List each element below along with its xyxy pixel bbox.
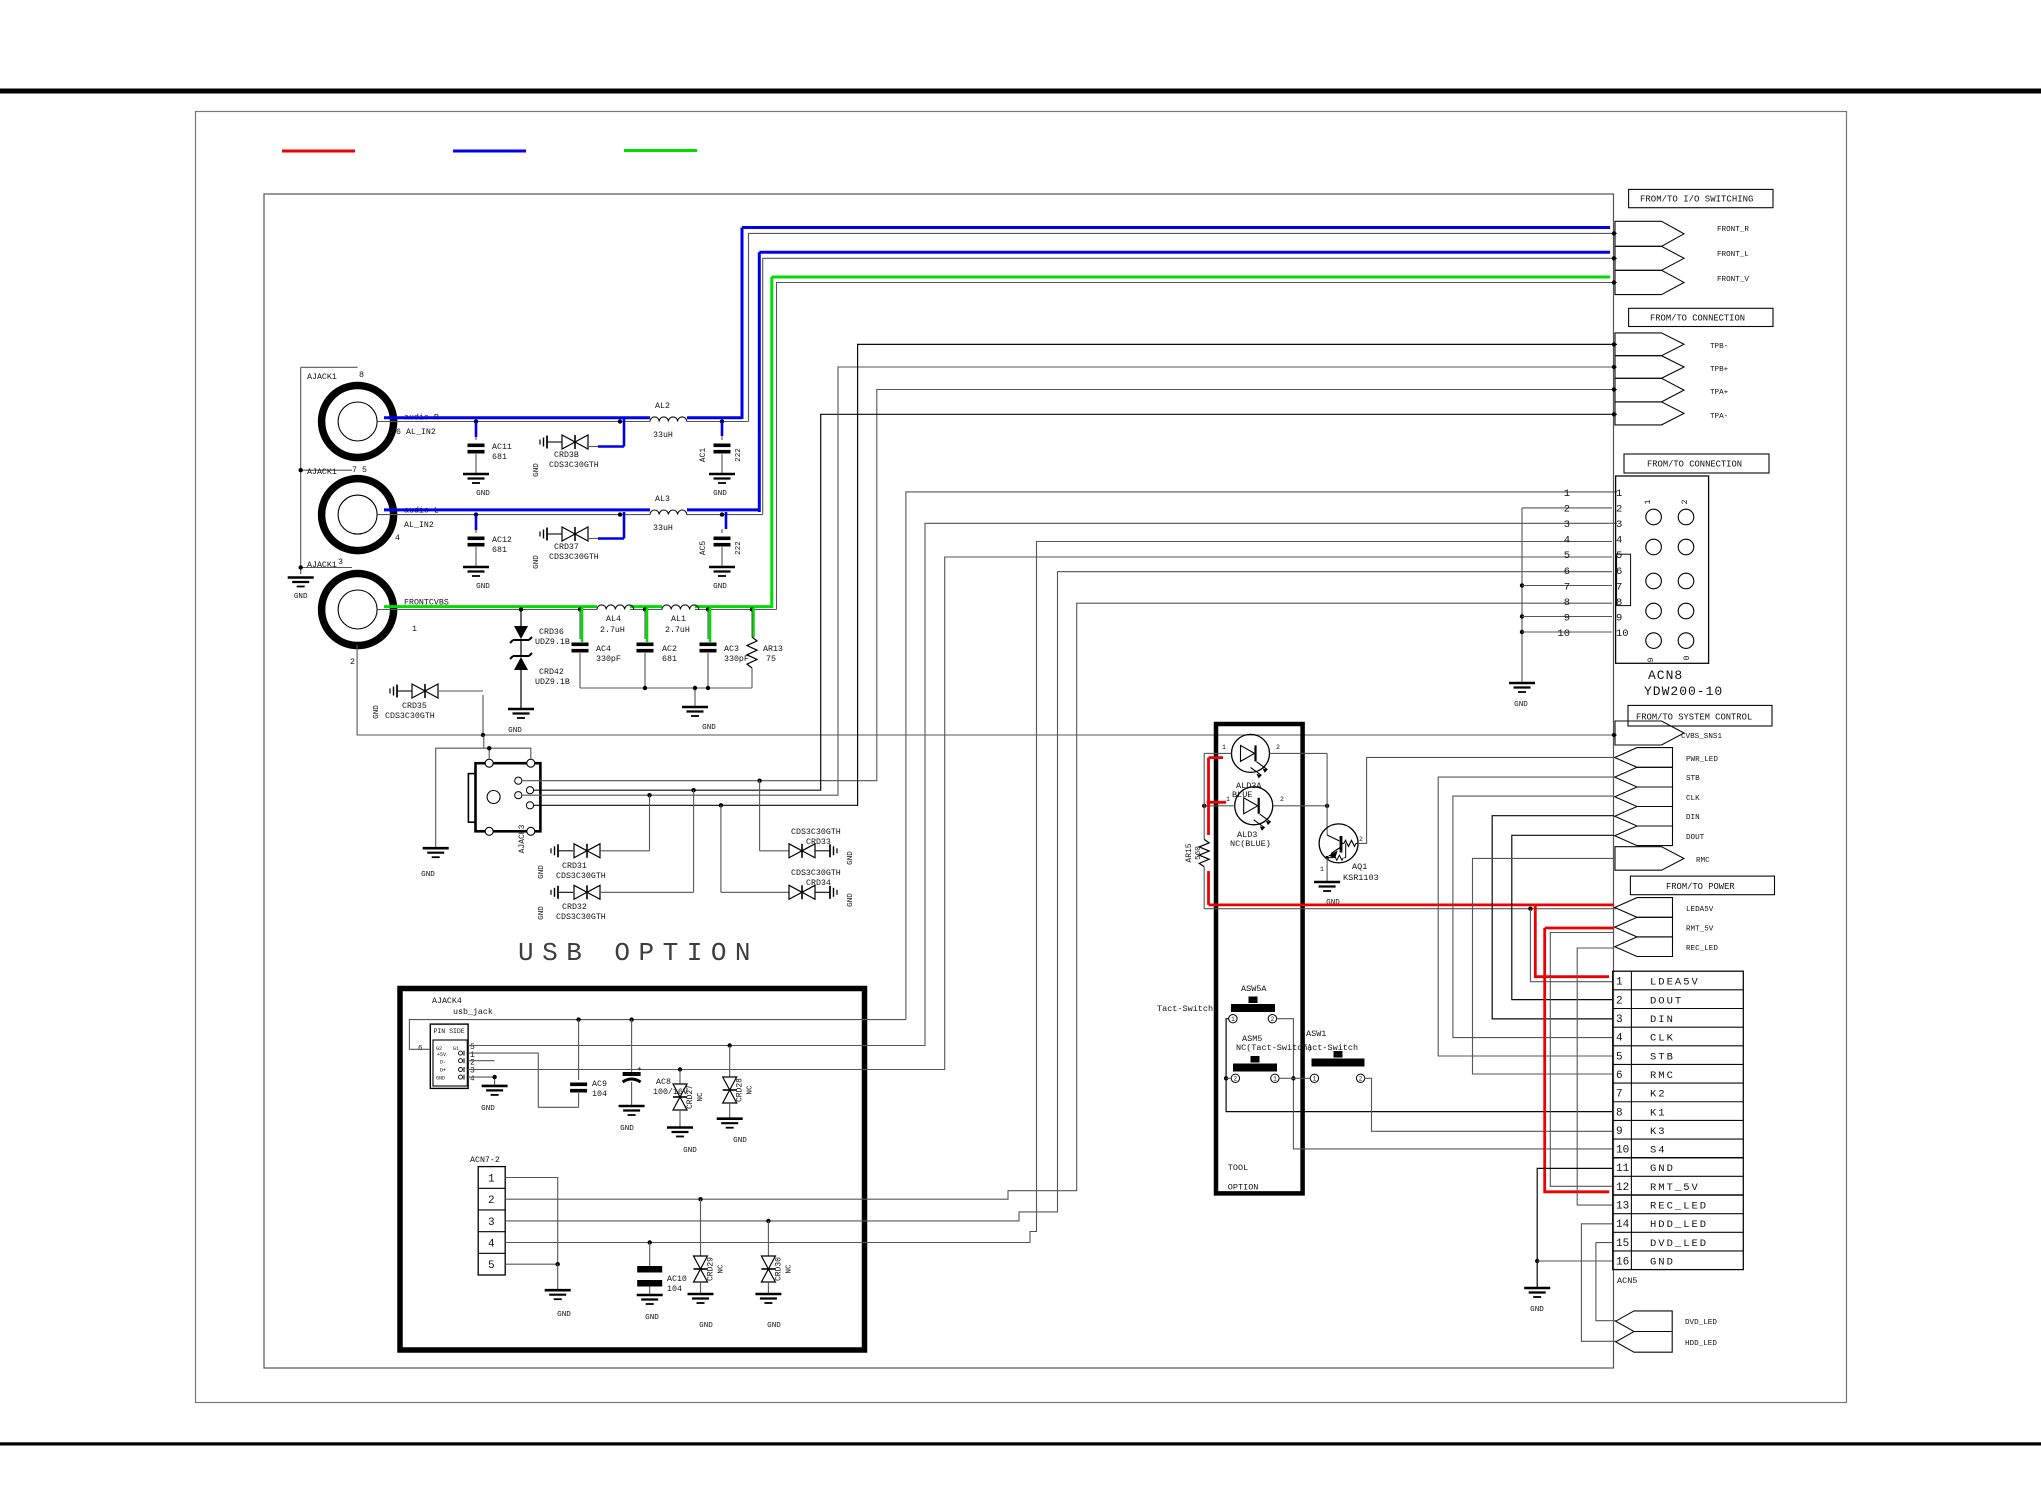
svg-text:RMT_5V: RMT_5V — [1686, 926, 1714, 934]
svg-text:3: 3 — [1616, 1014, 1623, 1026]
svg-text:TPB-: TPB- — [1710, 343, 1728, 351]
svg-text:FRONT_R: FRONT_R — [1717, 226, 1749, 234]
svg-text:104: 104 — [667, 1285, 682, 1294]
svg-text:7: 7 — [1616, 1089, 1623, 1101]
svg-text:GND: GND — [421, 871, 435, 879]
svg-text:TPA-: TPA- — [1710, 413, 1728, 421]
ground filter GND — [694, 688, 696, 707]
svg-text:9: 9 — [1616, 1126, 1623, 1138]
svg-text:8: 8 — [359, 371, 364, 380]
svg-text:9: 9 — [1616, 612, 1622, 624]
svg-text:D+: D+ — [440, 1068, 446, 1074]
svg-text:DOUT: DOUT — [1686, 834, 1705, 842]
svg-text:CRD33: CRD33 — [806, 838, 831, 847]
wire AJACK3 top bracket — [436, 748, 531, 848]
inductor AL4 — [597, 605, 634, 610]
svg-text:GND: GND — [1650, 1163, 1675, 1175]
diode CRD29 (TVS vertical) — [700, 1199, 702, 1256]
svg-text:AJACK3: AJACK3 — [518, 824, 527, 853]
svg-text:REC_LED: REC_LED — [1686, 945, 1718, 953]
wire ALD3 anode — [1204, 805, 1235, 807]
wire LEDA5V gray rail — [1204, 908, 1616, 910]
svg-text:DIN: DIN — [1650, 1014, 1675, 1026]
wire usb D+ row to ACN8 pin5 — [468, 557, 1612, 1070]
diode CRD31 (TVS) — [557, 844, 559, 857]
wire pin11 GND to ground — [1537, 1168, 1612, 1288]
wire blue overlay audio-R — [384, 416, 650, 419]
ground CRD42 GND — [508, 708, 534, 711]
svg-text:FRONT_L: FRONT_L — [1717, 251, 1749, 259]
svg-text:CDS3C30GTH: CDS3C30GTH — [549, 553, 599, 562]
wire usb +5V loop to AC9 bottom — [468, 1053, 578, 1107]
resistor AR13 75 — [750, 607, 754, 611]
svg-text:UDZ9.1B: UDZ9.1B — [535, 638, 570, 647]
svg-text:ASW1: ASW1 — [1306, 1029, 1326, 1039]
box FROM/TO CONNECTION lower — [1624, 454, 1769, 473]
svg-text:AC8: AC8 — [656, 1078, 671, 1087]
svg-text:YDW200-10: YDW200-10 — [1644, 684, 1723, 699]
svg-text:NC: NC — [786, 1264, 794, 1274]
wire ASW5A pin1 to K1 row — [1226, 1019, 1612, 1112]
svg-text:7: 7 — [1564, 581, 1570, 593]
connector ACN5 16-pin table — [1613, 971, 1744, 1269]
svg-text:10: 10 — [1557, 628, 1570, 640]
wire LEDA5V red to pin1 — [1535, 905, 1609, 977]
svg-text:GND: GND — [847, 851, 855, 865]
svg-text:3: 3 — [1616, 519, 1622, 531]
svg-text:33uH: 33uH — [653, 431, 673, 440]
svg-text:330pF: 330pF — [596, 655, 621, 664]
svg-text:+: + — [637, 1066, 642, 1074]
diode CRD34 (TVS) — [720, 805, 722, 892]
svg-text:RMT_5V: RMT_5V — [1650, 1182, 1700, 1194]
svg-text:G1: G1 — [453, 1046, 459, 1052]
wire red anode riser — [1207, 758, 1210, 835]
capacitor AC5 222 — [720, 512, 724, 516]
svg-text:1: 1 — [1616, 488, 1622, 500]
svg-text:0: 0 — [1683, 655, 1692, 660]
tag DOUT — [1615, 826, 1673, 846]
svg-text:1: 1 — [1564, 488, 1570, 500]
svg-text:6 AL_IN2: 6 AL_IN2 — [396, 428, 436, 437]
svg-text:2: 2 — [1234, 1076, 1238, 1083]
svg-text:AC5: AC5 — [699, 541, 708, 556]
tag REC_LED — [1615, 937, 1673, 957]
svg-text:10: 10 — [1616, 628, 1629, 640]
connector AJACK4 usb jack body — [430, 1024, 468, 1088]
box ACN8 rows 6-8 highlight — [1617, 554, 1631, 605]
capacitor AC3 330pF — [706, 607, 710, 611]
svg-text:GND: GND — [1530, 1306, 1544, 1314]
svg-text:FROM/TO CONNECTION: FROM/TO CONNECTION — [1647, 460, 1742, 470]
capacitor AC4 330pF — [578, 607, 582, 611]
svg-text:KSR1103: KSR1103 — [1343, 873, 1379, 883]
svg-text:GND: GND — [476, 583, 490, 591]
tag TPB+ — [1615, 356, 1684, 379]
svg-text:FROM/TO I/O SWITCHING: FROM/TO I/O SWITCHING — [1640, 195, 1753, 205]
ground AC5 GND — [709, 566, 735, 569]
connector ACN8 box — [1616, 476, 1709, 663]
svg-text:2: 2 — [488, 1195, 495, 1207]
svg-text:HDD_LED: HDD_LED — [1650, 1219, 1708, 1231]
capacitor AC10 104 — [649, 1243, 651, 1267]
svg-text:UDZ9.1B: UDZ9.1B — [535, 678, 570, 687]
wire ALD3A anode — [1204, 752, 1231, 754]
tag STB — [1615, 767, 1673, 787]
resistor AR15 560 — [1199, 839, 1209, 866]
wire usb GND pin to ground — [468, 1077, 495, 1086]
svg-text:DIN: DIN — [1686, 814, 1700, 822]
svg-text:2: 2 — [1359, 836, 1363, 843]
svg-text:3: 3 — [488, 1217, 495, 1229]
svg-text:AC4: AC4 — [596, 645, 611, 654]
svg-text:TPB+: TPB+ — [1710, 366, 1729, 374]
svg-text:AQ1: AQ1 — [1352, 862, 1367, 872]
wire red riser below AR15 — [1207, 871, 1210, 905]
svg-text:CDS3C30GTH: CDS3C30GTH — [791, 828, 841, 837]
svg-text:CDS3C30GTH: CDS3C30GTH — [549, 461, 599, 470]
svg-text:GND: GND — [294, 593, 308, 601]
tag TPA+ — [1615, 378, 1684, 402]
svg-text:3: 3 — [338, 558, 343, 567]
svg-text:16: 16 — [1616, 1256, 1629, 1268]
wire CLK tag to pin4 — [1453, 796, 1614, 1038]
diode CRD33 (TVS) — [759, 781, 761, 851]
svg-text:2: 2 — [1681, 499, 1690, 504]
svg-text:9: 9 — [1647, 657, 1656, 662]
tag TPA- — [1615, 402, 1684, 425]
wire pin16 GND — [1537, 1260, 1612, 1262]
diode CRD28 (TVS vertical) — [729, 1046, 731, 1078]
box FROM/TO CONNECTION upper — [1629, 308, 1773, 326]
wire AQ1 collector to PWR_LED — [1358, 757, 1614, 843]
svg-text:1: 1 — [1222, 744, 1226, 751]
transistor AQ1 KSR1103 — [1319, 824, 1358, 863]
top title bar — [0, 89, 2041, 94]
diode CRD32 (TVS) — [557, 886, 559, 899]
svg-text:GND: GND — [1514, 701, 1528, 709]
wire ACN7 pin3 to ACN8 pin6 — [505, 572, 1612, 1221]
svg-text:GND: GND — [733, 1137, 747, 1145]
ground AJACK3 GND — [423, 847, 449, 850]
tag CVBS_SNS1 — [1615, 721, 1684, 745]
connector AJACK3 body — [476, 763, 541, 831]
tag HDD_LED — [1616, 1332, 1673, 1353]
ground usb jack GND — [482, 1085, 508, 1088]
svg-text:CRD36: CRD36 — [539, 628, 564, 637]
svg-text:AC11: AC11 — [492, 443, 512, 452]
svg-text:5: 5 — [1616, 1051, 1623, 1063]
wire audio-R to tag FRONT_R — [749, 233, 1618, 421]
wire CRD35 riser to shield rail — [482, 695, 484, 735]
wire FRONTCVBS to tag FRONT_V — [777, 283, 1618, 610]
svg-text:GND: GND — [645, 1314, 659, 1322]
svg-text:11: 11 — [1616, 1163, 1630, 1175]
svg-text:2: 2 — [1564, 504, 1570, 516]
svg-text:2.7uH: 2.7uH — [600, 626, 625, 635]
svg-text:AL3: AL3 — [655, 495, 670, 504]
ground CRD29 GND — [688, 1293, 714, 1296]
ground AC11 GND — [463, 473, 489, 476]
svg-text:D-: D- — [440, 1060, 446, 1066]
wire ASM5 pins — [1226, 1077, 1231, 1079]
svg-text:1: 1 — [1644, 499, 1653, 504]
svg-text:AL1: AL1 — [671, 615, 686, 624]
svg-text:CRD32: CRD32 — [562, 903, 587, 912]
jack bracket / shield wire — [301, 366, 358, 368]
svg-text:AC9: AC9 — [592, 1080, 607, 1089]
wire RMT_5V red tag feed — [1545, 927, 1614, 930]
wire TPA- net (AJACK3 pin1) — [534, 414, 1617, 790]
tag LEDA5V — [1615, 898, 1673, 918]
tag TPB- — [1615, 333, 1684, 356]
svg-text:DVD_LED: DVD_LED — [1685, 1319, 1717, 1327]
wire red stub ALD3A — [1209, 756, 1224, 759]
svg-text:NC: NC — [697, 1092, 705, 1102]
svg-text:DVD_LED: DVD_LED — [1650, 1238, 1708, 1250]
svg-text:6: 6 — [1616, 1070, 1623, 1082]
ground ACN7 GND — [545, 1289, 571, 1292]
wire red stub ALD3 — [1209, 801, 1227, 804]
tag FRONT_R — [1615, 221, 1684, 246]
svg-text:TPA+: TPA+ — [1710, 389, 1729, 397]
svg-text:Tact-Switch: Tact-Switch — [1302, 1043, 1358, 1053]
svg-text:CLK: CLK — [1686, 795, 1700, 803]
svg-text:681: 681 — [492, 453, 507, 462]
svg-text:104: 104 — [592, 1090, 607, 1099]
svg-text:AR13: AR13 — [763, 645, 783, 654]
svg-text:8: 8 — [1616, 1107, 1623, 1119]
svg-text:FROM/TO POWER: FROM/TO POWER — [1666, 882, 1735, 892]
svg-text:GND: GND — [1650, 1256, 1675, 1268]
tag PWR_LED — [1615, 748, 1673, 768]
svg-text:1: 1 — [412, 625, 417, 634]
svg-text:DOUT: DOUT — [1650, 995, 1683, 1007]
svg-text:222: 222 — [735, 541, 743, 555]
capacitor AC11 — [474, 419, 478, 423]
inner schematic border — [264, 194, 1614, 1368]
legend green wire sample — [624, 149, 697, 152]
wire blue overlay audio-L — [384, 508, 650, 511]
wire ACN7 pin2 to ACN8 pin8 — [505, 603, 1612, 1199]
svg-text:GND: GND — [533, 463, 541, 477]
ground AC12 GND — [463, 566, 489, 569]
svg-text:GND: GND — [557, 1311, 571, 1319]
wire RMT_5V red riser to pin12 — [1545, 928, 1610, 1192]
svg-text:Tact-Switch: Tact-Switch — [1157, 1004, 1213, 1014]
wire audio-L to tag FRONT_L — [763, 258, 1617, 514]
svg-text:AL2: AL2 — [655, 402, 670, 411]
svg-text:USB OPTION: USB OPTION — [518, 938, 759, 968]
svg-text:+5V: +5V — [437, 1052, 446, 1058]
svg-text:RMC: RMC — [1696, 857, 1710, 865]
svg-text:2: 2 — [1280, 796, 1284, 803]
capacitor AC12 — [474, 512, 478, 516]
ground ACN5 GND — [1524, 1287, 1550, 1290]
wire pin14 to HDD_LED tag — [1581, 1224, 1616, 1342]
svg-text:CRD27: CRD27 — [686, 1085, 695, 1109]
wire DIN tag to pin3 — [1492, 816, 1614, 1019]
ground AC10 GND — [637, 1294, 663, 1297]
svg-text:GND: GND — [767, 1322, 781, 1330]
svg-text:AJACK4: AJACK4 — [432, 997, 462, 1006]
inductor AL2 — [650, 417, 687, 422]
wire green riser FRONT_V — [770, 277, 773, 608]
wire ASW1 pin1 — [1293, 1077, 1310, 1079]
capacitor AC2 681 — [643, 607, 647, 611]
svg-text:RMC: RMC — [1650, 1070, 1675, 1082]
svg-text:FRONT_V: FRONT_V — [1717, 276, 1749, 284]
svg-text:GND: GND — [713, 583, 727, 591]
svg-text:CLK: CLK — [1650, 1033, 1675, 1045]
svg-text:CRD35: CRD35 — [402, 702, 427, 711]
ground jack shield GND — [288, 576, 314, 579]
svg-text:681: 681 — [492, 546, 507, 555]
wire STB tag to pin5 — [1438, 777, 1614, 1056]
svg-text:14: 14 — [1616, 1219, 1630, 1231]
svg-text:CRD28: CRD28 — [736, 1078, 745, 1102]
svg-text:4: 4 — [395, 534, 400, 543]
wire REC_LED to pin13 — [1577, 948, 1614, 1205]
box FROM/TO I/O SWITCHING — [1629, 189, 1773, 207]
svg-text:AC12: AC12 — [492, 536, 512, 545]
wire ACN7 pin4 to ACN8 pin4 — [505, 542, 1612, 1243]
capacitor AC9 104 — [578, 1020, 580, 1080]
ground AC8 GND — [619, 1105, 645, 1108]
svg-text:AC2: AC2 — [662, 645, 677, 654]
svg-text:AR15: AR15 — [1185, 843, 1194, 862]
tag DIN — [1615, 807, 1673, 827]
ground CRD27 GND — [667, 1126, 693, 1129]
svg-text:AJACK1: AJACK1 — [307, 468, 337, 477]
svg-text:75: 75 — [766, 655, 776, 664]
svg-text:15: 15 — [1616, 1238, 1629, 1250]
svg-text:9: 9 — [1564, 612, 1570, 624]
svg-text:BLUE: BLUE — [1232, 790, 1252, 800]
wire pin15 to DVD_LED tag — [1596, 1243, 1616, 1321]
inductor AL3 — [650, 510, 687, 515]
svg-text:330pF: 330pF — [724, 655, 749, 664]
svg-text:CRD3B: CRD3B — [554, 451, 579, 460]
tag DVD_LED — [1616, 1311, 1673, 1332]
svg-text:AC10: AC10 — [667, 1275, 687, 1284]
svg-text:CRD34: CRD34 — [806, 879, 831, 888]
svg-text:CDS3C30GTH: CDS3C30GTH — [791, 869, 841, 878]
wire usb pin5 row to ACN8 pin3 — [468, 523, 1617, 1045]
svg-text:ASW5A: ASW5A — [1241, 984, 1267, 994]
box TOOL OPTION border — [1216, 724, 1303, 1193]
svg-text:GND: GND — [538, 865, 546, 879]
wire AR15 to LEDA5V rail — [1203, 867, 1205, 909]
wire ASW1 pin2 to K3 row — [1365, 1078, 1612, 1131]
svg-text:12: 12 — [1616, 1182, 1629, 1194]
wire usb D- row — [468, 1060, 495, 1062]
svg-text:CVBS_SNS1: CVBS_SNS1 — [1681, 733, 1722, 741]
diode CRD37 (TVS) — [546, 528, 548, 541]
svg-text:2: 2 — [1276, 744, 1280, 751]
diode CRD35 (TVS) — [396, 685, 398, 698]
wire rail stub to AJACK3 bracket — [483, 735, 485, 748]
svg-text:1: 1 — [1313, 1076, 1317, 1083]
outer sheet border — [196, 112, 1847, 1403]
svg-text:4: 4 — [488, 1239, 495, 1251]
svg-text:GND: GND — [847, 893, 855, 907]
svg-text:GND: GND — [713, 490, 727, 498]
svg-text:GND: GND — [538, 906, 546, 920]
capacitor AC1 222 — [720, 419, 724, 423]
svg-text:STB: STB — [1650, 1051, 1675, 1063]
legend red wire sample — [282, 150, 355, 153]
ground ACN8 GND — [1509, 682, 1535, 685]
wire ACN7 pin1 to pin5 join — [505, 1178, 558, 1265]
svg-text:OPTION: OPTION — [1228, 1183, 1259, 1193]
svg-text:GND: GND — [620, 1125, 634, 1133]
LED ALD3 NC(BLUE) — [1235, 787, 1273, 825]
svg-text:REC_LED: REC_LED — [1650, 1201, 1708, 1213]
wire blue riser FRONT_R — [741, 228, 744, 420]
wire green overlay FRONTCVBS — [384, 605, 597, 608]
wire ALD3 cathode — [1273, 805, 1327, 807]
wire jack3 shield to rail — [357, 645, 1617, 735]
svg-text:CRD30: CRD30 — [775, 1257, 784, 1281]
svg-text:AC1: AC1 — [699, 448, 708, 463]
svg-text:GND: GND — [683, 1147, 697, 1155]
tag CLK — [1615, 787, 1673, 807]
svg-text:STB: STB — [1686, 775, 1700, 783]
svg-text:GND: GND — [373, 705, 381, 719]
wire ALD3A cathode to bus — [1270, 752, 1328, 754]
svg-text:CDS3C30GTH: CDS3C30GTH — [556, 913, 606, 922]
wire TPB- net (AJACK3 pin2) — [534, 344, 1617, 805]
svg-text:2.7uH: 2.7uH — [665, 626, 690, 635]
svg-text:PWR_LED: PWR_LED — [1686, 756, 1718, 764]
svg-text:1: 1 — [1320, 866, 1324, 873]
ground CRD30 GND — [755, 1293, 781, 1296]
svg-text:GND: GND — [533, 555, 541, 569]
svg-text:LDEA5V: LDEA5V — [1650, 977, 1700, 989]
svg-text:ACN7-2: ACN7-2 — [470, 1156, 500, 1165]
svg-text:5: 5 — [1564, 550, 1570, 562]
wire RMC tag to pin6 — [1473, 858, 1615, 1074]
box USB OPTION border — [400, 989, 865, 1351]
diode CRD30 (TVS vertical) — [767, 1221, 769, 1256]
svg-text:222: 222 — [735, 448, 743, 462]
svg-text:1: 1 — [1231, 1016, 1235, 1023]
wire ASW5A pin2 to S4 row — [1277, 1019, 1612, 1149]
wire ACN8 row2/7/9/10 common vertical to ground — [1521, 508, 1523, 683]
ground AC1 GND — [709, 473, 735, 476]
wire LEDA5V gray to pin1 — [1530, 909, 1612, 982]
svg-text:HDD_LED: HDD_LED — [1685, 1340, 1717, 1348]
svg-text:4: 4 — [1616, 535, 1622, 547]
svg-text:AL_IN2: AL_IN2 — [404, 521, 434, 530]
svg-text:681: 681 — [662, 655, 677, 664]
svg-text:LEDA5V: LEDA5V — [1686, 906, 1714, 914]
svg-text:4: 4 — [1616, 1033, 1623, 1045]
capacitor AC8 100/16V electrolytic — [631, 1020, 633, 1072]
tag FRONT_L — [1615, 246, 1684, 270]
legend blue wire sample — [453, 150, 526, 153]
svg-text:CRD42: CRD42 — [539, 668, 564, 677]
bottom rule bar — [0, 1442, 2041, 1445]
svg-text:AC3: AC3 — [724, 645, 739, 654]
connector AJACK1 jack 3 (RCA) — [322, 574, 394, 646]
wire FRONTCVBS from jack — [377, 609, 597, 611]
svg-text:NC: NC — [747, 1085, 755, 1095]
wire LED anode bus — [1203, 753, 1205, 839]
svg-text:3: 3 — [1564, 519, 1570, 531]
svg-text:1: 1 — [1226, 796, 1230, 803]
